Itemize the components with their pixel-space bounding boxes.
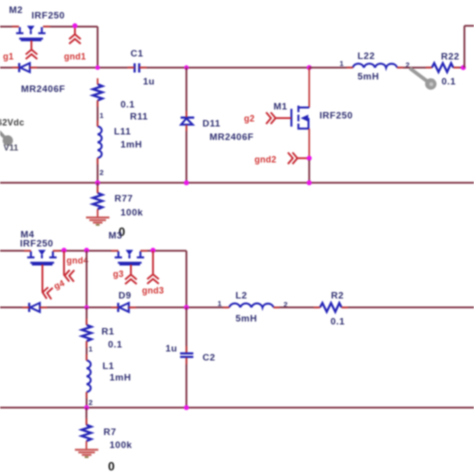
red pin stubs [12,27,460,425]
transistor M3 [115,250,144,265]
M2 gate stem [30,40,32,49]
wire R11 to L11 [97,101,99,127]
diode MR2406F (top) [19,63,30,72]
transistor M4 [27,250,56,265]
wire L11 to bottom rail [97,158,99,183]
junction dot gnd2 [307,156,312,161]
svg-text:1u: 1u [166,343,178,354]
resistor R1 [86,307,88,325]
svg-text:gnd2: gnd2 [255,155,277,165]
diode D11 vertical [181,68,195,183]
M3 gate stem [130,265,132,274]
wire corner up [463,26,465,68]
svg-text:L11: L11 [114,126,131,137]
port g3 [125,275,137,285]
port gnd3 [147,274,159,284]
wire mid rail left [0,306,29,308]
svg-text:1mH: 1mH [110,372,132,383]
wire D9 to corner [129,306,229,308]
junction dot gnd1 [72,23,77,28]
svg-text:0.1: 0.1 [108,339,122,350]
wire C1 to D11 column [140,67,309,69]
svg-text:0.1: 0.1 [121,99,135,110]
svg-text:gnd4: gnd4 [67,256,89,266]
bottom rail [0,407,474,409]
junction dot [84,248,89,253]
port gnd1 [69,34,81,44]
bottom rail of top circuit [0,182,474,184]
port g4 [42,287,53,300]
svg-text:1u: 1u [143,76,155,87]
ground (top) [86,218,109,225]
svg-text:IRF250: IRF250 [20,238,53,249]
svg-text:C1: C1 [131,48,144,59]
transistor M2 [16,26,45,41]
svg-text:R1: R1 [102,326,115,337]
svg-text:1mH: 1mH [121,139,143,150]
wire R1 to L1 [86,341,88,360]
port g1 [26,50,38,60]
port gnd2 [288,152,298,164]
node gnd4 stem [63,251,65,276]
inductor L1 [87,360,91,392]
resistor R7 [85,408,87,425]
resistor R2 [320,303,342,312]
svg-text:5mH: 5mH [236,313,258,324]
svg-text:1: 1 [100,111,104,120]
junction dot [184,180,189,185]
junction dot [307,65,312,70]
svg-text:C2: C2 [203,352,216,363]
wire M3 to corner [140,250,186,252]
svg-text:0.1: 0.1 [442,76,456,87]
wire L22 to R22 [397,67,432,69]
junction dot [95,180,100,185]
node gnd1 stem [74,27,76,34]
svg-text:2: 2 [100,168,104,177]
junction dot [84,405,89,410]
resistor R22 [432,63,454,72]
wire diode to D9 [40,306,118,308]
wire mid rail left [0,67,19,69]
svg-text:MR2406F: MR2406F [210,131,254,142]
svg-text:100k: 100k [110,439,133,450]
svg-text:42Vdc: 42Vdc [0,118,24,128]
svg-text:0: 0 [108,460,115,474]
capacitor C1 [134,63,136,72]
junction dot [184,405,189,410]
svg-text:R22: R22 [441,51,460,62]
transistor M1 (vertical) [291,68,309,160]
svg-text:D9: D9 [119,290,132,301]
svg-text:R7: R7 [104,426,117,437]
svg-text:5mH: 5mH [358,71,380,82]
inductor L22 [353,64,397,68]
capacitor C2 [180,307,193,407]
svg-text:M1: M1 [274,101,288,112]
diode D9 [118,303,129,312]
svg-text:L22: L22 [358,50,376,61]
svg-text:g1: g1 [3,52,14,62]
svg-text:IRF250: IRF250 [320,110,353,121]
wire top rail left of M2 [0,26,19,28]
node gnd3 stem [152,251,154,274]
svg-text:R11: R11 [130,111,148,122]
svg-text:gnd3: gnd3 [142,286,164,296]
svg-text:MR2406F: MR2406F [21,83,65,94]
svg-text:L1: L1 [103,360,115,371]
svg-text:g2: g2 [244,114,255,124]
M4 gate stem [41,265,43,292]
svg-text:0.1: 0.1 [331,316,345,327]
port gnd4 [64,270,74,282]
svg-text:L2: L2 [236,290,248,301]
resistor R77 [97,183,99,193]
diode (bottom left) [29,303,40,312]
wire top right stub [464,25,474,27]
wire top rail M2 to corner [43,26,98,28]
wire R7 to ground [85,441,87,449]
junction dot [84,305,89,310]
svg-text:M3: M3 [109,230,123,241]
wire mid rail right of M1 column to L22 [309,67,353,69]
wire corner down to mid rail [97,27,99,68]
svg-text:IRF250: IRF250 [32,10,65,21]
probe marker [410,68,437,90]
svg-text:2: 2 [89,398,93,407]
junction dot [307,180,312,185]
wire R77 to ground [97,209,99,217]
junction dot [95,65,100,70]
junction dot gnd4 [62,248,67,253]
inductor L2 [229,303,273,307]
svg-text:g3: g3 [113,269,124,279]
wire R2 to right edge [342,306,474,308]
wire R22 to corner [453,67,464,69]
junction dot [184,65,189,70]
junction dot [461,65,466,70]
wire L2 to R2 [274,306,321,308]
junction dot gnd3 [151,248,156,253]
ground (bottom) [75,450,98,457]
port g2 [266,112,276,124]
source V11 42Vdc [0,118,24,153]
svg-text:1: 1 [340,59,344,68]
wire M4 to M3 [53,250,119,252]
inductor L11 [98,126,102,158]
svg-text:M2: M2 [9,4,23,15]
svg-text:100k: 100k [121,207,144,218]
svg-text:D11: D11 [203,118,221,129]
resistor R11 [93,84,103,100]
wire M4-column down [86,251,88,308]
wire L1 to bottom rail [86,392,88,408]
wire corner down [185,251,187,308]
svg-text:gnd1: gnd1 [64,52,86,62]
svg-text:1: 1 [89,345,93,354]
wire mid rail diode to C1 [30,67,134,69]
junction dot [184,305,189,310]
svg-text:R77: R77 [115,193,134,204]
svg-text:V11: V11 [4,143,19,153]
wire top rail left of M4 [0,250,31,252]
svg-text:1: 1 [218,299,222,308]
wire M1 source to bottom rail [308,160,310,183]
svg-text:R2: R2 [331,290,344,301]
